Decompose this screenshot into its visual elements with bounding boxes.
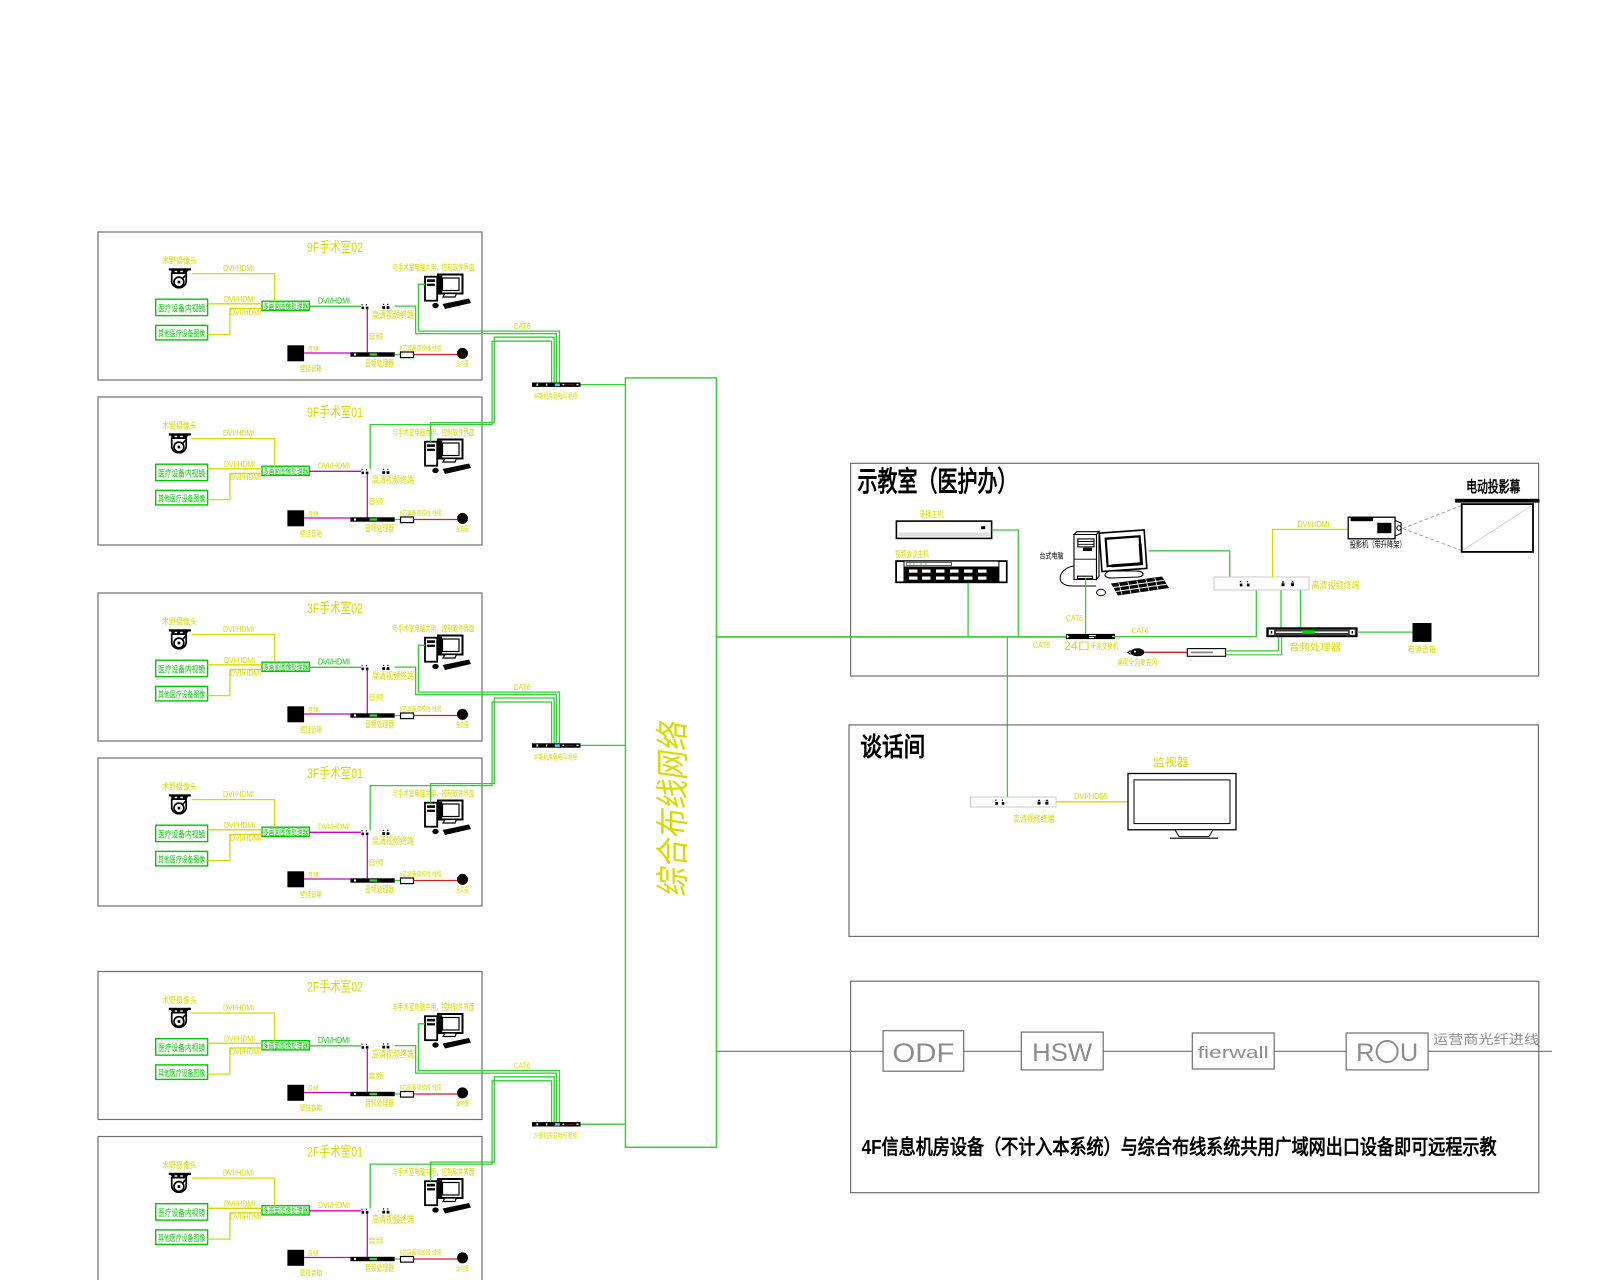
wire DVI/HDMI endoscope to processor (208, 1207, 262, 1209)
wire processor to HD terminal (309, 305, 361, 307)
svg-text:高清视频终端: 高清视频终端 (372, 474, 414, 487)
wire speaker to audio processor (304, 878, 350, 880)
wire mic red to adapter (1145, 651, 1188, 653)
device box 其他医疗设备图像 (156, 851, 208, 866)
svg-text:桌面全向麦克风: 桌面全向麦克风 (1117, 657, 1157, 667)
wire processor to HD terminal (309, 470, 361, 472)
svg-text:CAT6: CAT6 (514, 322, 531, 331)
room box 4F机房 border (851, 981, 1539, 1192)
desktop computer keyboard black (1111, 577, 1169, 596)
camera 术野摄像头 icon (169, 1008, 191, 1027)
audio processor bar 音频处理器 (350, 713, 394, 717)
svg-text:全向麦: 全向麦 (456, 1099, 469, 1108)
mic 全向麦 (457, 709, 468, 720)
speaker 有源音箱 (1413, 623, 1432, 642)
mic 桌面全向麦克风 (1128, 648, 1145, 656)
svg-text:音频: 音频 (308, 510, 319, 518)
wire DVI/HDMI terminal to monitor (1056, 801, 1128, 803)
device box 多画面图像处理器 (262, 1041, 309, 1050)
wire audio magenta terminal to audio processor (366, 309, 368, 353)
svg-text:多画面图像处理器: 多画面图像处理器 (263, 1041, 308, 1051)
recorder 录播主机 (896, 521, 991, 538)
svg-text:壁挂音箱: 壁挂音箱 (300, 1103, 322, 1113)
svg-text:与手术室电脑共用，控制软件界面: 与手术室电脑共用，控制软件界面 (393, 1167, 475, 1177)
mic 全向麦 (457, 1252, 468, 1263)
HD terminal connectors (362, 1211, 365, 1214)
wire DVI/HDMI other devices to processor (208, 669, 262, 695)
svg-text:医疗设备内视镜: 医疗设备内视镜 (158, 1207, 205, 1218)
svg-text:6芯屏蔽双绞线 线缆: 6芯屏蔽双绞线 线缆 (400, 1082, 442, 1091)
svg-text:谈话间: 谈话间 (860, 732, 925, 762)
wire audio magenta terminal to audio processor (366, 835, 368, 879)
wire floor switch to backbone (581, 1123, 626, 1125)
desktop monitor stand (1105, 571, 1143, 578)
HD terminal connectors (362, 472, 365, 475)
wire CAT6 desktop to switch (1085, 578, 1087, 634)
svg-text:壁挂音箱: 壁挂音箱 (300, 889, 322, 899)
svg-text:电动投影幕: 电动投影幕 (1466, 477, 1520, 496)
wire audio processor to mic adapter (395, 354, 401, 356)
desktop computer outline monitor (1099, 530, 1147, 572)
room box 9F手术室01 border (98, 397, 482, 545)
audio processor bar classroom (1267, 628, 1357, 636)
device box 医疗设备内视镜 (156, 299, 208, 315)
svg-text:医疗设备内视镜: 医疗设备内视镜 (158, 829, 205, 840)
wire switch to terminal (1114, 590, 1256, 637)
module ODF (883, 1031, 964, 1072)
wire CAT6 terminal to floor switch (370, 1081, 551, 1209)
room box 9F手术室02 border (98, 232, 482, 380)
svg-text:多画面图像处理器: 多画面图像处理器 (263, 662, 308, 672)
svg-text:音频处理器: 音频处理器 (365, 884, 394, 895)
svg-text:全向麦: 全向麦 (456, 720, 469, 729)
wire CAT6 terminal to floor switch (370, 341, 551, 469)
device box 其他医疗设备图像 (156, 325, 208, 340)
svg-text:9F新机房弱电间 机柜: 9F新机房弱电间 机柜 (534, 391, 578, 401)
svg-text:医疗设备内视镜: 医疗设备内视镜 (158, 664, 205, 675)
svg-text:音频处理器: 音频处理器 (365, 358, 394, 369)
svg-text:术野摄像头: 术野摄像头 (162, 782, 197, 792)
device box 多画面图像处理器 (262, 662, 309, 671)
svg-text:R〇U: R〇U (1356, 1039, 1418, 1067)
computer PC icon (425, 1179, 471, 1214)
svg-text:fierwall: fierwall (1198, 1043, 1269, 1062)
svg-text:全向麦: 全向麦 (456, 885, 469, 894)
classroom 24-port switch (1066, 634, 1115, 639)
svg-text:HSW: HSW (1032, 1039, 1092, 1067)
svg-text:DVI/HDMI: DVI/HDMI (223, 1004, 254, 1013)
device box 多画面图像处理器 (262, 466, 309, 475)
svg-text:DVI/HDMI: DVI/HDMI (318, 823, 350, 832)
wire floor switch to backbone (581, 744, 626, 746)
mic adapter (401, 517, 414, 523)
wires terminal to audio processor (1281, 590, 1301, 628)
camera 术野摄像头 icon (169, 433, 191, 452)
svg-text:2F新机房弱电间 机柜: 2F新机房弱电间 机柜 (534, 1130, 578, 1140)
svg-text:术野摄像头: 术野摄像头 (162, 995, 197, 1005)
room box 2F手术室01 border (98, 1137, 482, 1280)
device box 医疗设备内视镜 (156, 825, 208, 841)
mic adapter (401, 713, 414, 719)
backbone box 综合布线网络 (625, 378, 716, 1147)
camera 术野摄像头 icon (169, 794, 191, 813)
svg-text:DVI/HDMI: DVI/HDMI (318, 1036, 350, 1045)
svg-text:音频处理器: 音频处理器 (365, 523, 394, 534)
svg-text:9F手术室02: 9F手术室02 (307, 239, 363, 255)
svg-text:壁挂音箱: 壁挂音箱 (300, 528, 322, 538)
desktop computer cable loop (1060, 566, 1096, 586)
svg-text:运营商光纤进线: 运营商光纤进线 (1433, 1032, 1539, 1047)
wire ODF to HSW (964, 1050, 1022, 1052)
projection screen 电动投影幕 (1455, 499, 1539, 503)
svg-text:4F信息机房设备（不计入本系统）与综合布线系统共用广域网出口: 4F信息机房设备（不计入本系统）与综合布线系统共用广域网出口设备即可远程示教 (862, 1135, 1497, 1159)
wire processor to HD terminal (309, 831, 361, 833)
svg-text:音频: 音频 (308, 706, 319, 714)
svg-text:视频会议主机: 视频会议主机 (895, 549, 929, 559)
svg-text:2F手术室02: 2F手术室02 (307, 979, 363, 995)
device box 其他医疗设备图像 (156, 1065, 208, 1080)
svg-text:DVI/HDMI: DVI/HDMI (224, 295, 255, 304)
svg-text:CAT6: CAT6 (514, 683, 531, 692)
speaker 壁挂音箱 (287, 1085, 304, 1101)
svg-text:高清视频终端: 高清视频终端 (372, 1048, 414, 1061)
wire mic red (414, 1093, 458, 1095)
wire CAT6 computer to floor switch (418, 645, 559, 743)
svg-text:DVI/HDMI: DVI/HDMI (230, 669, 261, 678)
wire CAT6 terminal to floor switch (395, 667, 557, 743)
svg-text:医疗设备内视镜: 医疗设备内视镜 (158, 468, 205, 479)
svg-text:多画面图像处理器: 多画面图像处理器 (263, 1206, 308, 1216)
svg-text:DVI/HDMI: DVI/HDMI (224, 1035, 255, 1044)
svg-text:ODF: ODF (892, 1038, 954, 1068)
speaker 壁挂音箱 (287, 345, 304, 361)
svg-text:DVI/HDMI: DVI/HDMI (230, 473, 261, 482)
svg-text:CAT6: CAT6 (514, 1062, 531, 1071)
wire DVI/HDMI other devices to processor (208, 473, 262, 499)
wire audio magenta terminal to audio processor (366, 1213, 368, 1257)
device box 多画面图像处理器 (262, 301, 309, 310)
wire backbone to ODF gray (716, 1050, 883, 1052)
wire speaker to audio processor (304, 352, 350, 354)
device box 医疗设备内视镜 (156, 1039, 208, 1055)
wire audio processor to speaker (1357, 631, 1413, 633)
wire DVI/HDMI camera to processor (192, 635, 275, 663)
wire backbone to classroom switch (716, 636, 1066, 638)
HD terminal connectors (362, 668, 365, 671)
svg-text:与手术室电脑共用，控制软件界面: 与手术室电脑共用，控制软件界面 (393, 428, 475, 438)
svg-text:台式电脑: 台式电脑 (1040, 551, 1064, 561)
wire DVI/HDMI camera to processor (192, 800, 275, 828)
svg-text:全向麦: 全向麦 (456, 524, 469, 533)
wire audio processor to mic adapter (395, 1093, 401, 1095)
svg-text:多画面图像处理器: 多画面图像处理器 (263, 301, 308, 311)
svg-text:千兆交换机: 千兆交换机 (1091, 641, 1119, 652)
svg-text:与手术室电脑共用，控制软件界面: 与手术室电脑共用，控制软件界面 (393, 624, 475, 634)
svg-text:音频: 音频 (368, 1236, 383, 1246)
svg-text:高清视频终端: 高清视频终端 (1312, 580, 1360, 592)
wire DVI/HDMI other devices to processor (208, 1048, 262, 1074)
HD terminal connectors (362, 1046, 365, 1049)
device box 多画面图像处理器 (262, 827, 309, 836)
svg-text:全向麦: 全向麦 (456, 1264, 469, 1273)
svg-text:投影机（带升降架）: 投影机（带升降架） (1350, 540, 1406, 550)
projection beam dashed (1403, 506, 1462, 551)
wire mic red (414, 354, 458, 356)
wire DVI/HDMI camera to processor (192, 1013, 275, 1041)
svg-text:音频: 音频 (368, 496, 383, 506)
wire speaker to audio processor (304, 713, 350, 715)
wire floor switch to backbone (581, 384, 626, 386)
svg-text:DVI/HDMI: DVI/HDMI (223, 264, 254, 273)
wire rack to switch line (967, 583, 969, 637)
svg-text:其他医疗设备图像: 其他医疗设备图像 (158, 1068, 205, 1078)
svg-text:DVI/HDMI: DVI/HDMI (230, 308, 261, 317)
mic 全向麦 (457, 513, 468, 524)
svg-text:音频: 音频 (368, 1071, 383, 1081)
svg-text:音频: 音频 (368, 857, 383, 867)
wire processor to HD terminal (309, 1045, 361, 1047)
module ROU (1346, 1033, 1428, 1070)
HD terminal bar interview (971, 797, 1057, 807)
mic adapter box (1187, 649, 1225, 657)
svg-text:24口: 24口 (1064, 641, 1090, 653)
svg-text:综合布线网络: 综合布线网络 (655, 718, 693, 898)
svg-text:全向麦: 全向麦 (456, 359, 469, 368)
mic 全向麦 (457, 874, 468, 885)
wire CAT6 computer to floor switch (431, 698, 555, 803)
svg-text:音频处理器: 音频处理器 (1289, 642, 1342, 654)
svg-text:音频: 音频 (308, 1085, 319, 1093)
floor switch 9F新机房弱电间 机柜 (532, 383, 581, 387)
svg-text:6芯屏蔽双绞线 线缆: 6芯屏蔽双绞线 线缆 (400, 343, 442, 352)
mic adapter (401, 352, 414, 358)
svg-text:壁挂音箱: 壁挂音箱 (300, 363, 322, 373)
wire audio magenta terminal to audio processor (366, 474, 368, 518)
wire processor to HD terminal (309, 666, 361, 668)
camera 术野摄像头 icon (169, 268, 191, 287)
wire CAT6 computer to floor switch (418, 284, 559, 382)
svg-text:音频: 音频 (308, 345, 319, 353)
wire audio magenta terminal to audio processor (366, 670, 368, 714)
wire DVI/HDMI other devices to processor (208, 308, 262, 334)
HD terminal connectors (362, 833, 365, 836)
wire mic red (414, 519, 458, 521)
svg-text:医疗设备内视镜: 医疗设备内视镜 (158, 303, 205, 314)
wire DVI/HDMI endoscope to processor (208, 1042, 262, 1044)
wire speaker to audio processor (304, 1257, 350, 1259)
floor switch 2F新机房弱电间 机柜 (532, 1122, 581, 1126)
svg-text:高清视频终端: 高清视频终端 (372, 670, 414, 683)
svg-text:DVI/HDMI: DVI/HDMI (224, 656, 255, 665)
svg-text:DVI/HDMI: DVI/HDMI (1298, 519, 1330, 529)
svg-text:DVI/HDMI: DVI/HDMI (224, 460, 255, 469)
svg-text:术野摄像头: 术野摄像头 (162, 617, 197, 627)
svg-text:3F手术室02: 3F手术室02 (307, 600, 363, 616)
svg-text:3F手术室01: 3F手术室01 (307, 765, 363, 781)
wire CAT6 terminal to floor switch (395, 1046, 557, 1123)
svg-text:其他医疗设备图像: 其他医疗设备图像 (158, 855, 205, 865)
mic adapter (401, 1257, 414, 1263)
wire mic red (414, 715, 458, 717)
svg-text:与手术室电脑共用，控制软件界面: 与手术室电脑共用，控制软件界面 (393, 789, 475, 799)
mic adapter (401, 1092, 414, 1098)
computer PC icon (425, 275, 471, 310)
svg-text:与手术室电脑共用，控制软件界面: 与手术室电脑共用，控制软件界面 (393, 263, 475, 273)
device box 医疗设备内视镜 (156, 464, 208, 480)
svg-text:DVI/HDMI: DVI/HDMI (318, 658, 350, 667)
svg-text:DVI/HDMI: DVI/HDMI (224, 1200, 255, 1209)
wire processor to HD terminal (309, 1210, 361, 1212)
svg-text:6芯屏蔽双绞线 线缆: 6芯屏蔽双绞线 线缆 (400, 1247, 442, 1256)
module fierwall (1192, 1033, 1274, 1069)
wire CAT6 computer to floor switch (431, 337, 555, 442)
camera 术野摄像头 icon (169, 629, 191, 648)
svg-text:与手术室电脑共用，控制软件界面: 与手术室电脑共用，控制软件界面 (393, 1002, 475, 1012)
computer PC icon (425, 440, 471, 475)
wire speaker to audio processor (304, 1092, 350, 1094)
wire speaker to audio processor (304, 517, 350, 519)
svg-text:CAT6: CAT6 (1066, 613, 1083, 623)
svg-text:DVI/HDMI: DVI/HDMI (223, 1169, 254, 1178)
svg-text:高清视频终端: 高清视频终端 (1013, 813, 1054, 824)
computer PC icon (425, 636, 471, 671)
svg-text:3F新机房弱电间 机柜: 3F新机房弱电间 机柜 (534, 751, 578, 761)
device box 其他医疗设备图像 (156, 686, 208, 701)
room box 谈话间 border (849, 725, 1538, 937)
HD terminal connectors (362, 307, 365, 310)
svg-text:DVI/HDMI: DVI/HDMI (318, 297, 350, 306)
wire DVI/HDMI camera to processor (192, 274, 275, 302)
audio processor bar 音频处理器 (350, 352, 394, 356)
svg-text:其他医疗设备图像: 其他医疗设备图像 (158, 1233, 205, 1243)
svg-text:有源音箱: 有源音箱 (1408, 645, 1436, 655)
svg-text:DVI/HDMI: DVI/HDMI (230, 1048, 261, 1057)
wire monitor to terminal (1149, 551, 1230, 577)
wire audio processor to mic adapter (395, 880, 401, 882)
svg-text:6芯屏蔽双绞线 线缆: 6芯屏蔽双绞线 线缆 (400, 508, 442, 517)
wire DVI/HDMI endoscope to processor (208, 468, 262, 470)
svg-text:其他医疗设备图像: 其他医疗设备图像 (158, 494, 205, 504)
module HSW (1021, 1032, 1103, 1070)
svg-text:音频: 音频 (308, 1250, 319, 1258)
wire fierwall to ROU (1274, 1050, 1346, 1052)
svg-text:6芯屏蔽双绞线 线缆: 6芯屏蔽双绞线 线缆 (400, 869, 442, 878)
svg-text:壁挂音箱: 壁挂音箱 (300, 724, 322, 734)
wire classroom down to interview room (1006, 637, 1008, 799)
device box 多画面图像处理器 (262, 1206, 309, 1215)
wire mic red (414, 1258, 458, 1260)
video conference host rack (896, 561, 1007, 583)
svg-text:音频: 音频 (368, 331, 383, 341)
svg-text:DVI/HDMI: DVI/HDMI (318, 462, 350, 471)
svg-text:其他医疗设备图像: 其他医疗设备图像 (158, 329, 205, 339)
svg-text:DVI/HDMI: DVI/HDMI (1074, 791, 1108, 801)
svg-text:DVI/HDMI: DVI/HDMI (223, 790, 254, 799)
wire HSW to fierwall (1103, 1050, 1192, 1052)
mic adapter (401, 878, 414, 884)
svg-text:音频处理器: 音频处理器 (365, 719, 394, 730)
speaker 壁挂音箱 (287, 871, 304, 887)
wire DVI/HDMI camera to processor (192, 1178, 275, 1206)
wire CAT6 terminal to floor switch (370, 702, 551, 830)
svg-text:录播主机: 录播主机 (919, 509, 943, 519)
svg-text:CAT6: CAT6 (1132, 626, 1149, 636)
wire CAT6 computer to floor switch (418, 1024, 559, 1122)
mic 全向麦 (457, 348, 468, 359)
wire audio magenta terminal to audio processor (366, 1048, 368, 1092)
audio processor bar 音频处理器 (350, 1092, 394, 1096)
svg-text:术野摄像头: 术野摄像头 (162, 256, 197, 266)
monitor 监视器 (1128, 774, 1236, 839)
svg-text:高清视频终端: 高清视频终端 (372, 1213, 414, 1226)
svg-text:6芯屏蔽双绞线 线缆: 6芯屏蔽双绞线 线缆 (400, 704, 442, 713)
room box 2F手术室02 border (98, 972, 482, 1120)
wire ROU to fiber entry (1428, 1050, 1552, 1052)
device box 其他医疗设备图像 (156, 490, 208, 505)
mic 全向麦 (457, 1087, 468, 1098)
speaker 壁挂音箱 (287, 510, 304, 526)
svg-text:高清视频终端: 高清视频终端 (372, 835, 414, 848)
audio processor bar 音频处理器 (350, 1257, 394, 1261)
svg-text:DVI/HDMI: DVI/HDMI (223, 625, 254, 634)
svg-text:高清视频终端: 高清视频终端 (372, 309, 414, 322)
svg-text:音频处理器: 音频处理器 (365, 1097, 394, 1108)
svg-text:CAT6: CAT6 (1033, 640, 1050, 650)
svg-text:医疗设备内视镜: 医疗设备内视镜 (158, 1042, 205, 1053)
desktop computer mouse (1097, 589, 1106, 595)
svg-text:DVI/HDMI: DVI/HDMI (318, 1201, 350, 1210)
wire recorder to switch line (992, 530, 1019, 637)
wire DVI/HDMI other devices to processor (208, 834, 262, 860)
svg-text:术野摄像头: 术野摄像头 (162, 421, 197, 431)
room box 3F手术室01 border (98, 758, 482, 906)
wires adapter to audio processor (1226, 636, 1282, 654)
wire DVI/HDMI endoscope to processor (208, 664, 262, 666)
svg-text:DVI/HDMI: DVI/HDMI (230, 1213, 261, 1222)
wire audio processor to mic adapter (395, 715, 401, 717)
wire CAT6 terminal to floor switch (395, 306, 557, 382)
svg-text:示教室（医护办）: 示教室（医护办） (858, 465, 1018, 497)
svg-text:音频处理器: 音频处理器 (365, 1262, 394, 1273)
svg-text:DVI/HDMI: DVI/HDMI (224, 821, 255, 830)
computer PC icon (425, 801, 471, 836)
camera 术野摄像头 icon (169, 1173, 191, 1192)
svg-text:音频: 音频 (368, 692, 383, 702)
room box 3F手术室02 border (98, 593, 482, 741)
wire audio processor to mic adapter (395, 1258, 401, 1260)
wire DVI/HDMI other devices to processor (208, 1213, 262, 1239)
svg-text:监视器: 监视器 (1153, 755, 1189, 769)
wire DVI/HDMI endoscope to processor (208, 303, 262, 305)
computer PC icon (425, 1014, 471, 1049)
svg-text:DVI/HDMI: DVI/HDMI (223, 429, 254, 438)
svg-text:壁挂音箱: 壁挂音箱 (300, 1268, 322, 1278)
wire DVI/HDMI endoscope to processor (208, 829, 262, 831)
floor switch 3F新机房弱电间 机柜 (532, 743, 581, 747)
speaker 壁挂音箱 (287, 706, 304, 722)
device box 医疗设备内视镜 (156, 660, 208, 676)
svg-text:多画面图像处理器: 多画面图像处理器 (263, 466, 308, 476)
audio processor bar 音频处理器 (350, 878, 394, 882)
wire DVI/HDMI terminal to projector (1273, 529, 1349, 577)
svg-text:音频: 音频 (308, 871, 319, 879)
room box 示教室（医护办） border (851, 463, 1539, 676)
projector 投影机 (1348, 517, 1401, 539)
svg-text:2F手术室01: 2F手术室01 (307, 1144, 363, 1160)
HD terminal bar classroom (1214, 577, 1309, 590)
wire mic red (414, 880, 458, 882)
svg-text:多画面图像处理器: 多画面图像处理器 (263, 827, 308, 837)
